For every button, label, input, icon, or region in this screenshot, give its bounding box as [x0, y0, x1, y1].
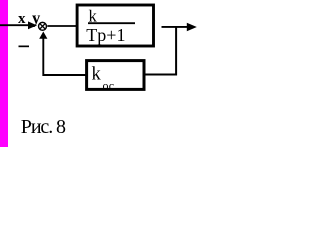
wire block output: [162, 26, 191, 28]
magenta margin stripe: [0, 0, 8, 147]
node branch junction vertical wire down: [175, 26, 177, 75]
wire feedback vertical up into summer: [42, 37, 44, 77]
input arrowhead: [28, 21, 37, 29]
summing junction U1 circle with cross: [39, 22, 47, 30]
feedback arrowhead up: [39, 32, 47, 39]
output arrowhead: [187, 23, 197, 32]
svg-text:ос: ос: [103, 78, 115, 92]
svg-text:k: k: [92, 65, 102, 85]
forward block W1 rectangle: [77, 5, 153, 46]
fraction bar: [88, 22, 135, 24]
svg-text:Рис. 8: Рис. 8: [21, 116, 66, 138]
feedback block W2 rectangle: [87, 61, 144, 90]
wire feedback left segment: [43, 74, 87, 76]
wire summer to forward block: [47, 25, 76, 27]
svg-text:Tp+1: Tp+1: [86, 25, 125, 45]
wire feedback right segment: [145, 74, 178, 76]
minus sign label: [19, 46, 30, 48]
wire input horizontal into summer: [0, 24, 30, 26]
